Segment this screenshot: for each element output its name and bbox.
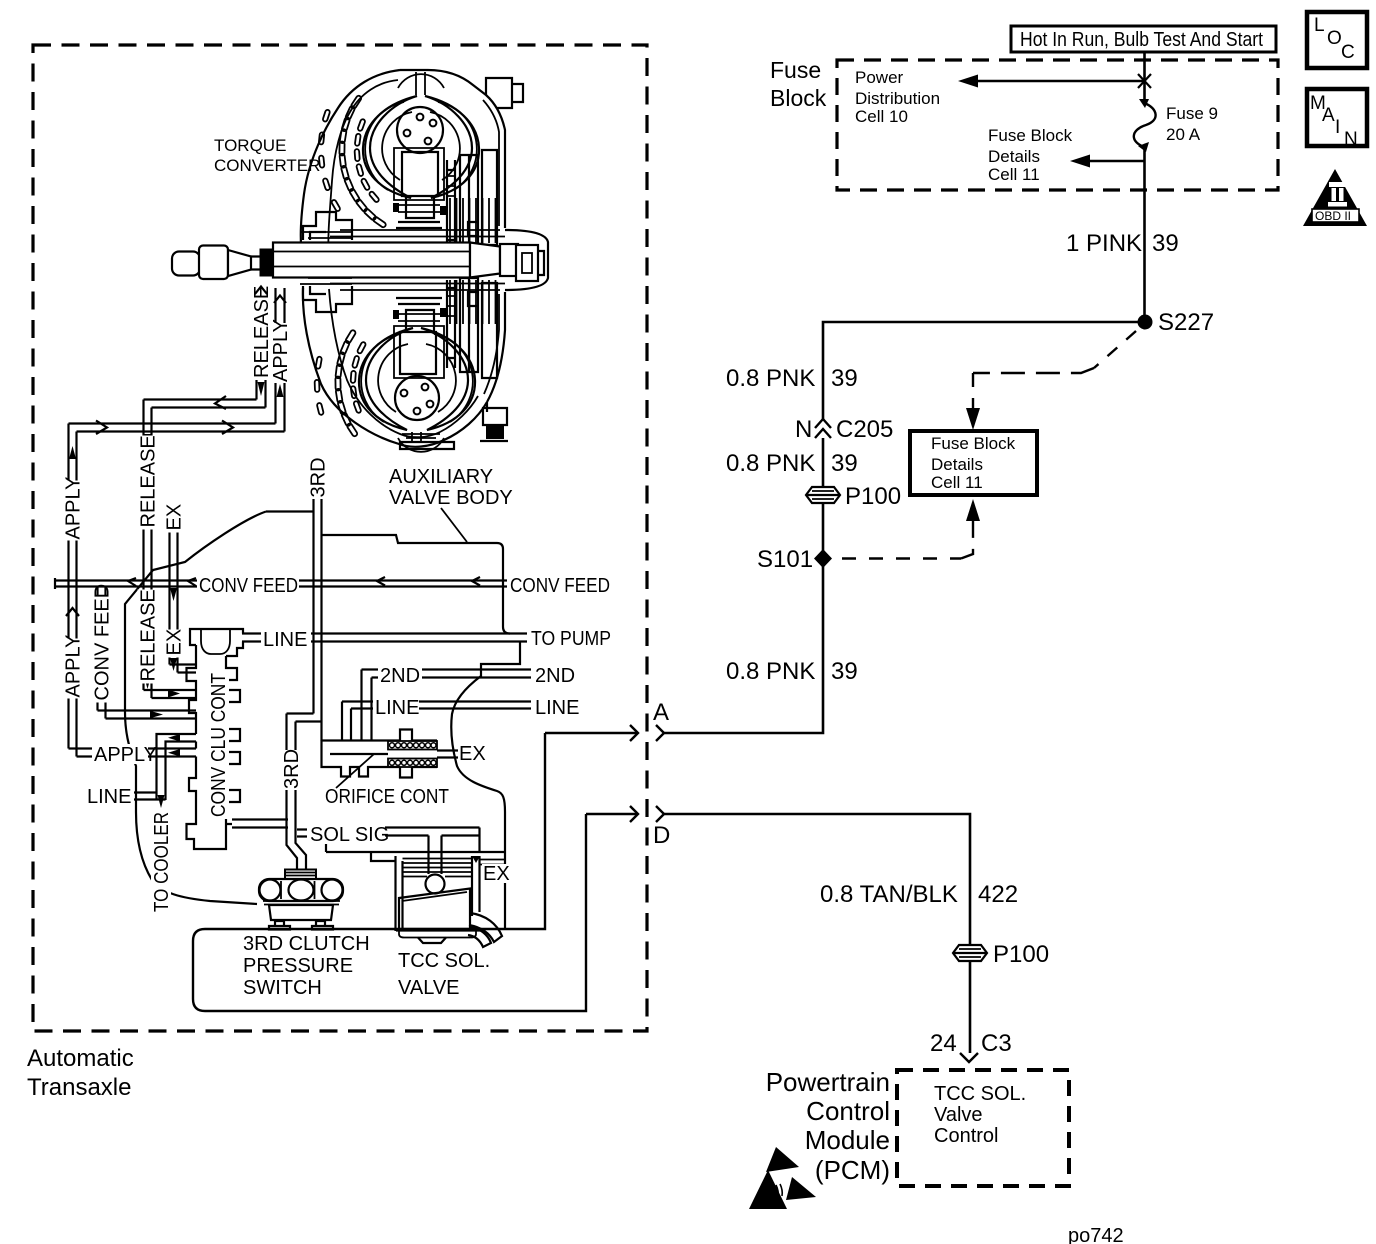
label LINE (right) — [533, 697, 579, 719]
arrow to Power Distribution — [958, 75, 1144, 88]
svg-text:Fuse 9: Fuse 9 — [1166, 104, 1218, 123]
label Fuse 9 20 A — [1166, 104, 1218, 144]
label Fuse Block Details Cell 11 (inside fuse box) — [988, 126, 1073, 184]
top center block — [396, 152, 442, 228]
svg-text:SOL SIG: SOL SIG — [310, 824, 389, 846]
svg-text:39: 39 — [1152, 230, 1179, 257]
pipe run upper stair — [144, 400, 266, 408]
pipe sol sig — [232, 820, 480, 853]
splice S101 — [757, 546, 832, 573]
right shaft housing bulge — [505, 230, 548, 290]
svg-text:ORIFICE CONT: ORIFICE CONT — [325, 786, 449, 808]
svg-text:39: 39 — [831, 658, 858, 685]
bottom tab — [400, 442, 454, 449]
right side frame top — [447, 150, 497, 250]
svg-text:(PCM): (PCM) — [815, 1155, 890, 1185]
svg-text:39: 39 — [831, 365, 858, 392]
svg-text:APPLY: APPLY — [270, 319, 292, 382]
converter housing right lower edge — [487, 292, 505, 412]
label 3RD (3rd pipe lower) — [281, 749, 303, 790]
top torus inner arcs — [382, 112, 460, 180]
wire from title box through fuse box — [1143, 52, 1146, 101]
svg-text:PRESSURE: PRESSURE — [243, 955, 353, 977]
svg-text:N: N — [1344, 129, 1358, 150]
pipe conv feed horizontal — [55, 578, 507, 589]
flow chevron on release pipe top — [255, 287, 267, 295]
pipe run lower stair — [69, 424, 285, 432]
splice S227 — [1138, 315, 1153, 330]
label RELEASE (left vertical pipe lower) — [138, 589, 160, 683]
svg-text:2ND: 2ND — [380, 665, 420, 687]
right side frame bottom — [447, 278, 497, 378]
x junction mark — [1138, 74, 1151, 88]
dashed link S227 to details box — [966, 331, 1136, 430]
label CONV FEED (right) — [508, 575, 612, 597]
label LINE (left) — [373, 697, 419, 719]
pipe line2 horizontal — [342, 702, 531, 742]
pipe release left vertical — [144, 400, 152, 699]
svg-text:3RD CLUTCH: 3RD CLUTCH — [243, 933, 370, 955]
shaft end bracket — [516, 245, 544, 281]
svg-text:EX: EX — [483, 863, 510, 885]
wire P100 to S101 — [822, 503, 825, 567]
label EX (orifice valve) — [458, 743, 486, 765]
svg-text:Details: Details — [931, 455, 983, 474]
shaft neck — [251, 257, 263, 270]
label APPLY (far left pipe lower) — [63, 635, 85, 699]
torque converter assembly — [172, 70, 548, 452]
label 2ND (left) — [378, 664, 422, 687]
svg-text:C: C — [1341, 42, 1355, 63]
corner symbols — [1303, 12, 1367, 226]
wire loop bottom — [193, 733, 586, 1011]
arrows on pipes — [255, 289, 267, 297]
fuse block dashed box — [837, 60, 1278, 190]
svg-text:po742: po742 — [1068, 1225, 1124, 1244]
shaft collar — [199, 246, 228, 280]
pin 24 / C3 connector — [930, 1030, 1012, 1062]
svg-text:L: L — [1314, 15, 1325, 36]
wire S101 down to A corner — [664, 567, 823, 733]
pass-through connector P100 (lower) — [953, 941, 1049, 968]
svg-text:422: 422 — [978, 881, 1018, 908]
svg-text:Powertrain: Powertrain — [766, 1067, 890, 1097]
label CONV FEED (vertical branch) — [92, 584, 114, 703]
label LINE (to pump run) — [261, 629, 311, 651]
svg-text:TCC SOL.: TCC SOL. — [398, 950, 490, 972]
svg-text:LINE: LINE — [535, 697, 579, 719]
label 0.8 PNK 39 (1) — [726, 365, 858, 392]
svg-text:Block: Block — [770, 85, 827, 111]
svg-text:Cell 10: Cell 10 — [855, 107, 908, 126]
svg-text:39: 39 — [831, 450, 858, 477]
svg-text:LINE: LINE — [375, 697, 419, 719]
connector A at transaxle box — [545, 699, 669, 741]
pass-through connector P100 (upper) — [806, 483, 901, 510]
label APPLY (converter apply pipe) — [270, 319, 292, 383]
svg-text:D: D — [653, 822, 670, 849]
converter housing inner left arc — [328, 80, 478, 437]
svg-text:CONV FEED: CONV FEED — [510, 575, 610, 597]
pipe ex vertical — [170, 506, 197, 673]
pipe apply vertical under converter — [276, 288, 285, 432]
clutch plate stacks — [450, 198, 496, 243]
connector D at transaxle box — [586, 806, 670, 849]
svg-text:3RD: 3RD — [281, 749, 303, 789]
automatic transaxle dashed enclosure box — [33, 45, 647, 1031]
label TO COOLER — [151, 810, 173, 913]
svg-text:TORQUE: TORQUE — [214, 136, 286, 155]
wire D to P100 lower — [664, 814, 970, 944]
pipe apply bottom elbow — [69, 749, 197, 757]
conv clu cont valve body — [187, 629, 244, 849]
bottom vane right — [421, 328, 475, 430]
right circuit — [545, 26, 1278, 1244]
valve body outline top — [266, 512, 510, 634]
nested block outlines — [394, 148, 444, 378]
svg-text:A: A — [653, 699, 669, 726]
svg-text:0.8 PNK: 0.8 PNK — [726, 365, 815, 392]
svg-text:P100: P100 — [993, 941, 1049, 968]
label EX (tcc valve) — [482, 863, 510, 885]
label APPLY (horizontal) — [92, 744, 157, 766]
arrow to Fuse Block Details — [1070, 155, 1144, 168]
svg-text:APPLY: APPLY — [63, 477, 85, 540]
label 0.8 PNK 39 (2) — [726, 450, 858, 477]
svg-text:Automatic: Automatic — [27, 1045, 134, 1072]
bottom center block — [396, 298, 442, 374]
label TO PUMP — [529, 626, 613, 650]
pipe line to pump horizontal — [242, 634, 527, 642]
svg-text:P100: P100 — [845, 483, 901, 510]
label LINE (cooler stub) — [86, 786, 133, 808]
label Fuse Block — [770, 57, 827, 111]
pipe labels — [63, 286, 614, 999]
fuse block details solid box — [910, 431, 1037, 495]
svg-text:CONV FEED: CONV FEED — [92, 584, 114, 701]
LOC box — [1307, 12, 1367, 68]
label 0.8 PNK 39 (3) — [726, 658, 858, 685]
svg-text:Valve: Valve — [934, 1104, 983, 1126]
svg-text:2ND: 2ND — [535, 665, 575, 687]
valve body outline right — [451, 642, 520, 853]
label SOL SIG — [308, 823, 389, 846]
label Power Distribution Cell 10 — [855, 68, 940, 126]
pipes — [55, 288, 586, 1011]
MAIN box — [1307, 89, 1367, 150]
label RELEASE (converter release pipe) — [251, 286, 273, 380]
svg-text:APPLY: APPLY — [94, 744, 157, 766]
svg-text:C3: C3 — [981, 1030, 1012, 1057]
svg-text:1 PINK: 1 PINK — [1066, 230, 1142, 257]
svg-text:Cell 11: Cell 11 — [931, 473, 983, 492]
converter housing top edge — [400, 70, 505, 228]
pipe 2nd horizontal — [362, 670, 532, 742]
converter housing outer left arc — [301, 70, 487, 447]
svg-text:S101: S101 — [757, 546, 813, 573]
label 1 PINK 39 — [1066, 230, 1179, 257]
top vane left — [363, 96, 417, 198]
pipe to cooler pair — [157, 734, 197, 800]
svg-text:O: O — [1327, 28, 1342, 49]
label 0.8 TAN/BLK 422 — [820, 881, 1018, 908]
svg-text:RELEASE: RELEASE — [138, 589, 160, 681]
svg-text:S227: S227 — [1158, 309, 1214, 336]
label TORQUE CONVERTER — [214, 136, 320, 175]
fuse 9 symbol — [1134, 99, 1156, 152]
svg-text:TO PUMP: TO PUMP — [531, 628, 611, 650]
wire S227 left and down — [823, 322, 1145, 419]
label Powertrain Control Module (PCM) — [766, 1067, 890, 1185]
svg-text:TO COOLER: TO COOLER — [151, 812, 173, 912]
housing neck blocks — [303, 212, 352, 240]
PCM dashed box — [897, 1070, 1069, 1186]
label Automatic Transaxle — [27, 1045, 134, 1101]
svg-text:N: N — [795, 416, 812, 443]
clutch plate slots — [315, 95, 387, 437]
svg-text:EX: EX — [459, 743, 486, 765]
svg-text:0.8 TAN/BLK: 0.8 TAN/BLK — [820, 881, 958, 908]
pipe release elbow into valve — [144, 690, 197, 698]
pipe 3rd elbow left — [287, 714, 322, 722]
svg-text:Power: Power — [855, 68, 904, 87]
3rd clutch pressure switch — [259, 870, 343, 930]
orifice control valve — [322, 730, 459, 789]
svg-text:APPLY: APPLY — [63, 635, 85, 698]
shaft taper — [228, 250, 251, 276]
svg-text:CONV FEED: CONV FEED — [199, 575, 298, 597]
connector C205 chevrons — [795, 416, 893, 443]
shell lines around shaft — [330, 230, 505, 290]
svg-text:Transaxle: Transaxle — [27, 1074, 131, 1101]
bottom hub — [395, 376, 439, 420]
top hub — [397, 107, 443, 153]
shaft right taper — [470, 243, 500, 278]
wire fuse to S227 — [1143, 147, 1146, 322]
valve body outline left — [125, 512, 266, 905]
bottom torus inner arcs — [378, 344, 456, 412]
wire P100 to PCM pin 24 — [969, 961, 972, 1053]
shaft main body — [273, 243, 470, 278]
svg-text:Distribution: Distribution — [855, 89, 940, 108]
svg-text:Details: Details — [988, 147, 1040, 166]
svg-text:EX: EX — [164, 629, 186, 656]
svg-text:A: A — [1322, 105, 1335, 126]
svg-text:3RD: 3RD — [308, 457, 330, 497]
svg-text:CONV CLU CONT: CONV CLU CONT — [208, 673, 230, 817]
svg-text:VALVE: VALVE — [398, 977, 460, 999]
callout line to valve body — [441, 508, 467, 542]
svg-text:Fuse: Fuse — [770, 57, 821, 83]
svg-text:Module: Module — [805, 1125, 890, 1155]
svg-text:20 A: 20 A — [1166, 125, 1201, 144]
OBD II symbol — [1303, 169, 1367, 226]
svg-text:0.8 PNK: 0.8 PNK — [726, 450, 815, 477]
svg-text:VALVE BODY: VALVE BODY — [389, 487, 513, 509]
svg-text:CONVERTER: CONVERTER — [214, 156, 320, 175]
right housing inner edge — [483, 100, 499, 394]
Hot In Run title box — [1011, 26, 1276, 52]
pipe conv feed vertical branch — [98, 587, 197, 719]
svg-text:RELEASE: RELEASE — [138, 435, 160, 527]
shaft bearing block — [260, 249, 274, 277]
pipe apply left vertical — [69, 424, 77, 757]
top vane right — [425, 96, 479, 198]
shaft left tip — [172, 252, 200, 276]
label EX (ex pipe upper) — [164, 504, 186, 533]
svg-text:I: I — [1335, 117, 1340, 138]
svg-text:0.8 PNK: 0.8 PNK — [726, 658, 815, 685]
label TCC SOL. Valve Control — [934, 1083, 1026, 1147]
svg-text:24: 24 — [930, 1030, 957, 1057]
svg-text:Fuse Block: Fuse Block — [931, 434, 1016, 453]
dashed link S101 to details box — [842, 499, 980, 559]
svg-text:Control: Control — [806, 1096, 890, 1126]
ESD warning symbol — [749, 1147, 816, 1209]
valve body tcc chamber — [326, 829, 505, 930]
svg-text:C205: C205 — [836, 416, 893, 443]
pipe 3rd main vertical — [314, 499, 322, 741]
bottom right attachment with black block — [480, 408, 508, 441]
svg-text:OBD II: OBD II — [1315, 209, 1351, 223]
svg-text:SWITCH: SWITCH — [243, 977, 322, 999]
label RELEASE (left vertical pipe upper) — [138, 435, 160, 529]
top right bracket — [486, 78, 523, 108]
label 3RD (3rd pipe top) — [308, 457, 330, 498]
svg-text:LINE: LINE — [263, 629, 307, 651]
svg-text:Cell 11: Cell 11 — [988, 165, 1040, 184]
label APPLY (far left pipe upper) — [63, 477, 85, 541]
svg-text:LINE: LINE — [87, 786, 131, 808]
svg-text:Fuse Block: Fuse Block — [988, 126, 1073, 145]
svg-text:Control: Control — [934, 1125, 998, 1147]
svg-text:EX: EX — [164, 504, 186, 531]
conv clu cont valve inner dome — [201, 629, 230, 654]
svg-text:AUXILIARY: AUXILIARY — [389, 466, 493, 488]
label EX (ex pipe lower) — [164, 629, 186, 658]
wire C205 to P100 — [822, 438, 825, 486]
pipe release vertical under converter — [257, 288, 266, 408]
tcc solenoid valve — [371, 836, 505, 948]
pipe line3 stub — [134, 793, 166, 800]
label 2ND (right) — [533, 664, 577, 687]
svg-text:TCC SOL.: TCC SOL. — [934, 1083, 1026, 1105]
label CONV FEED (left) — [197, 575, 299, 597]
bottom vane left — [359, 328, 413, 430]
svg-text:Hot In Run, Bulb Test And Star: Hot In Run, Bulb Test And Start — [1020, 29, 1263, 51]
label CONV CLU CONT — [208, 671, 230, 819]
pipe 3rd lower pair to switch — [287, 714, 307, 870]
